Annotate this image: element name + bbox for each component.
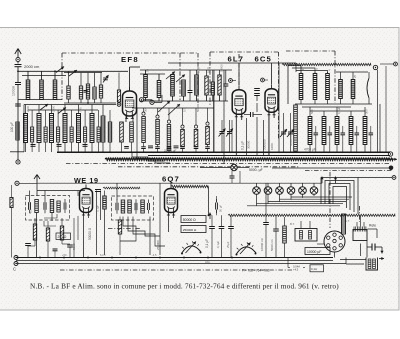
wire v 214 (213, 70, 215, 152)
trimmer TC3 (280, 113, 287, 152)
coil LI2 (50, 200, 54, 222)
shield EF8 left (62, 53, 198, 100)
svg-text:100 µF: 100 µF (10, 122, 14, 132)
heater zigzag (103, 187, 140, 189)
wire v 246 (246, 118, 248, 155)
socket pin 1 (327, 236, 330, 239)
label C (13, 267, 16, 272)
svg-text:2000: 2000 (51, 105, 55, 112)
bus zigzag (105, 158, 397, 161)
label b4 (216, 241, 220, 248)
wire v 257 (256, 103, 258, 155)
coil L13 left (16, 122, 19, 140)
ddv right2 (359, 206, 361, 222)
wire v 296 (295, 63, 297, 72)
label b6 (290, 222, 295, 226)
switch S2b (176, 75, 185, 83)
svg-text:10000 cm: 10000 cm (260, 237, 264, 251)
svg-text:0,1 µF: 0,1 µF (205, 239, 209, 248)
switch S1a (56, 67, 64, 73)
capacitor C40 (314, 126, 319, 152)
coil LB1 (103, 191, 106, 256)
trimmer TC1 (219, 120, 226, 152)
wire ant row (18, 71, 128, 75)
resistor RB3 (60, 218, 63, 244)
wire v 279 (278, 63, 280, 152)
trimmer Tsub (103, 75, 109, 83)
coil L21 (37, 105, 41, 153)
wire v240b (239, 171, 241, 183)
capacitor CI5 (135, 199, 137, 214)
wire subbank top (64, 72, 102, 74)
plug mains (367, 244, 384, 254)
label WE19 (74, 176, 99, 185)
wire EF8 top (140, 70, 232, 74)
bus B2 (16, 260, 333, 262)
wire w96 (96, 191, 98, 256)
coil LI4 (121, 200, 125, 213)
wire v5 pins (168, 214, 173, 233)
svg-text:0,1: 0,1 (158, 108, 162, 112)
wire v2 pins (236, 115, 241, 156)
label s11 (183, 108, 187, 112)
svg-text:15: 15 (315, 67, 319, 71)
trimmer TI2 (148, 200, 150, 214)
capacitor CW1 (95, 190, 101, 192)
zigzag 6q7 (171, 185, 208, 187)
svg-text:50000: 50000 (196, 104, 200, 112)
svg-text:Alim.: Alim. (205, 260, 211, 264)
coil L12 (211, 70, 214, 101)
coil L22 (50, 105, 54, 153)
osc stair (288, 66, 328, 105)
label 01uF a (241, 141, 245, 150)
svg-text:6C5: 6C5 (255, 55, 272, 64)
lamp mid (200, 164, 249, 170)
resistor R12 (57, 110, 60, 152)
wire v78 (77, 191, 79, 241)
wire v4 pins (83, 214, 88, 258)
label f762 (242, 268, 270, 272)
label 200 (56, 233, 71, 240)
label EF8 (121, 55, 139, 64)
coil L40 (308, 107, 312, 152)
wire osc bottom (295, 103, 372, 105)
wire v 380 (379, 104, 381, 152)
coil L1 (26, 71, 30, 99)
label b5 (226, 241, 230, 248)
svg-text:30000: 30000 (247, 140, 251, 149)
trimmer TI1 (64, 199, 66, 213)
label s13 (310, 109, 314, 114)
svg-text:200 Ω: 200 Ω (58, 235, 67, 239)
capacitor C60 (124, 147, 129, 149)
resistor R11 (44, 110, 47, 152)
coil L33 (326, 72, 330, 104)
lamp P4 (287, 183, 295, 200)
capacitor Cant 2000cm (15, 65, 22, 76)
tube V3 6C5 (265, 85, 278, 115)
svg-text:4700 µF: 4700 µF (304, 148, 316, 152)
wire row2a (24, 105, 116, 111)
label rete (369, 224, 376, 228)
dial cord (282, 63, 378, 69)
svg-text:B.T.: B.T. (290, 222, 295, 226)
resistor R50 (294, 105, 298, 151)
capacitor CB3 (53, 249, 58, 258)
coil L32 (313, 72, 317, 104)
capacitor C12 (83, 145, 88, 147)
wire x24 (23, 105, 25, 153)
capacitor C43 (355, 126, 360, 152)
choke LF (283, 217, 287, 258)
svg-text:EF8: EF8 (121, 55, 139, 64)
wire junction a (17, 70, 89, 104)
capacitor C8 (188, 70, 193, 101)
socket pin 3 (339, 236, 342, 239)
wire left col (17, 100, 19, 153)
wire pt right (368, 229, 378, 238)
wire IFT1 top (30, 191, 86, 200)
label 25000uF (164, 149, 177, 153)
capacitor C42 (341, 126, 346, 152)
label b2 (122, 207, 126, 212)
lamp P5 (299, 183, 307, 198)
capacitor CB2 (67, 245, 73, 258)
capacitor CM2 (228, 215, 234, 257)
svg-text:6,3 v: 6,3 v (100, 253, 106, 257)
label s8 (353, 74, 357, 78)
tube V2 6L7 (232, 86, 246, 117)
resistor R23 (180, 108, 185, 152)
label bus t3 (152, 253, 157, 257)
label 1000 (270, 143, 274, 150)
label s1 (146, 68, 150, 72)
label 6Q7 (162, 175, 180, 184)
wire loops exit (358, 176, 396, 180)
junction sub (117, 103, 121, 107)
svg-text:25µF: 25µF (226, 241, 230, 248)
capacitor Csub1 (84, 91, 88, 93)
wire lamp bus (247, 197, 352, 206)
bus 2 (148, 155, 390, 157)
coil L3 (53, 71, 57, 99)
terminal right 1 (388, 152, 392, 156)
svg-text:0,5: 0,5 (183, 108, 187, 112)
label s15 (365, 109, 369, 114)
terminal BL2 (14, 262, 18, 266)
svg-text:5000 cm: 5000 cm (270, 239, 274, 251)
coil LI6 (141, 200, 145, 213)
wire step ift2 (128, 217, 160, 237)
zigzag mid bus (208, 213, 395, 220)
wire v 160 (159, 183, 161, 255)
aerial K (19, 175, 40, 197)
capacitor C13 left (15, 104, 21, 106)
bus 1 (10, 151, 390, 153)
switch S3a (40, 104, 48, 110)
wire V1 pins (126, 116, 133, 122)
wire v 263 (263, 120, 265, 155)
label s16 (26, 105, 30, 112)
label s9 (144, 107, 148, 112)
svg-text:250000 Ω: 250000 Ω (183, 228, 197, 232)
wire lamp feed (37, 182, 322, 184)
capacitor CB1 (25, 218, 31, 258)
label s14 (337, 107, 341, 114)
trimmer TC2 (226, 120, 233, 152)
coil L7 (93, 73, 96, 104)
socket pin 4 (327, 244, 330, 247)
socket V6 (324, 231, 345, 252)
terminal right 2 (389, 166, 394, 171)
resistor R25 (205, 108, 210, 152)
svg-text:5000- µF: 5000- µF (249, 168, 263, 172)
capacitor C14 (148, 146, 153, 148)
svg-text:300: 300 (144, 107, 148, 112)
wire w100 (100, 191, 102, 221)
label s10 (158, 108, 162, 112)
wire ant bottom (18, 99, 62, 101)
wire row2 right a (302, 107, 365, 111)
label 2000cm (24, 64, 40, 69)
coil LI5 (128, 200, 132, 213)
svg-text:250000: 250000 (156, 240, 160, 250)
svg-text:50000 Ω: 50000 Ω (289, 135, 293, 146)
ddv right (329, 172, 331, 228)
coil L9 (171, 75, 175, 102)
svg-text:700: 700 (78, 107, 82, 112)
resistor R10 (218, 70, 221, 101)
svg-text:25: 25 (353, 74, 357, 78)
capacitor C9 (223, 70, 228, 101)
bus dash 1 (66, 163, 390, 165)
coil L2 (40, 71, 44, 99)
wire v150 (149, 217, 151, 256)
wire stepL (44, 214, 57, 226)
wire step3 (133, 217, 165, 247)
coil L44 (363, 107, 367, 152)
terminal K (15, 181, 19, 185)
antenna A (15, 49, 21, 64)
svg-text:C: C (13, 267, 16, 272)
switch S2a (166, 72, 175, 80)
wire v5 top (170, 183, 172, 185)
label 500000 (263, 139, 267, 150)
capacitor CI1 (29, 199, 31, 213)
box pot1 (181, 216, 206, 223)
label s17 (51, 105, 55, 112)
lamp P3 (276, 183, 284, 202)
bus B3 (16, 263, 346, 265)
label s5 (301, 67, 305, 71)
svg-text:50000 Ω: 50000 Ω (88, 227, 92, 240)
label bus t1 (62, 253, 67, 257)
label 30000 (247, 140, 251, 149)
grid junction g2 (150, 100, 154, 104)
resistor R14 (84, 110, 87, 152)
coil L20 (24, 105, 28, 153)
label bus t2 (100, 253, 106, 257)
coil L7 (144, 70, 148, 101)
socket pin 6 (339, 244, 342, 247)
capacitor C11 (57, 145, 62, 147)
wire bb links (288, 258, 364, 268)
terminal BL1 (14, 256, 18, 260)
resistor R22 (167, 108, 172, 152)
tube V4 WE19 (80, 185, 93, 216)
wire subbank bottom (64, 102, 116, 104)
arrow up lamps (320, 177, 337, 188)
coil L23 (63, 105, 67, 153)
pot arc2 (236, 242, 257, 255)
pot arc1 (181, 241, 202, 254)
label 4700uF (304, 148, 316, 152)
transformer OT (295, 221, 317, 241)
coil L42 (335, 107, 339, 152)
svg-text:Rete: Rete (369, 224, 376, 228)
wire v 2135 (213, 95, 215, 152)
label 5000cm (270, 239, 274, 251)
svg-text:2000 cm: 2000 cm (24, 64, 40, 69)
label 10000cm (260, 237, 264, 251)
resistor RB1 (33, 218, 36, 246)
label 50uF (219, 205, 223, 212)
label 01uFb (205, 239, 209, 248)
label 100cm (12, 86, 16, 96)
resistor RK (10, 185, 13, 258)
wire mid bottom (140, 100, 228, 102)
resistor R10 (31, 110, 34, 152)
svg-text:0,1µF: 0,1µF (216, 241, 220, 248)
svg-text:+4,5: +4,5 (293, 268, 299, 272)
wire v74 (73, 218, 75, 258)
resistor R60 (120, 122, 124, 152)
dash seg bf (108, 228, 141, 230)
lamp P1 (253, 183, 261, 205)
tube V1 EF8 (123, 87, 137, 119)
svg-text:50: 50 (146, 68, 150, 72)
svg-text:465: 465 (29, 209, 33, 214)
wire v 390t (378, 62, 398, 152)
svg-text:500: 500 (310, 109, 314, 114)
socket pin 7 (333, 239, 336, 242)
label 6C5 (255, 55, 272, 64)
resistor R9 (205, 70, 208, 101)
svg-text:6Q7: 6Q7 (162, 175, 180, 184)
grid cap V2 (229, 79, 236, 83)
wire v2085 (208, 187, 210, 217)
coil L24 (77, 105, 81, 153)
svg-text:-4,5: -4,5 (152, 253, 157, 257)
svg-text:N.B. - La BF e Alim. sono in c: N.B. - La BF e Alim. sono in comune per … (30, 282, 339, 291)
coil L4 (67, 73, 70, 104)
label s7 (328, 69, 332, 71)
label s12 (196, 104, 200, 112)
lamp P6 (310, 183, 318, 196)
wire IFT2 in (116, 183, 118, 200)
capacitor C10 (31, 145, 36, 147)
capacitor C6q (216, 196, 218, 215)
socket pin 5 (333, 247, 336, 250)
svg-text:50 µF: 50 µF (219, 205, 223, 212)
resistor R13 (70, 110, 73, 152)
capacitor C17 coupling (244, 112, 262, 117)
coil L6 (86, 73, 89, 104)
transformer PT (353, 216, 367, 241)
switch S4a (158, 101, 170, 112)
coil L60 (130, 122, 134, 152)
grid cap V3 (261, 78, 268, 82)
coil LI3 (57, 201, 60, 212)
socket pin 2 (333, 233, 336, 236)
grid junction g1 (139, 98, 143, 102)
wire loops right (321, 178, 358, 215)
svg-text:10000 µF: 10000 µF (307, 250, 321, 254)
wire socket down (327, 228, 335, 258)
tube V5 6Q7 (165, 185, 178, 216)
svg-text:10µF: 10µF (197, 66, 201, 73)
bus B1 (16, 257, 333, 259)
coil L26 (101, 105, 105, 153)
svg-text:0,1µF: 0,1µF (96, 205, 100, 212)
box pot2 (181, 226, 206, 233)
capacitor C1 (15, 76, 21, 100)
step wires (132, 153, 170, 163)
wire spk (340, 241, 367, 260)
svg-text:30: 30 (301, 67, 305, 71)
label s3 (207, 67, 211, 73)
resistor RB2 (46, 221, 49, 258)
label s2 (197, 66, 201, 73)
wire V2 top (238, 63, 240, 86)
svg-text:5000: 5000 (72, 243, 76, 250)
capacitor CM1 (219, 215, 225, 257)
terminal left mid (16, 152, 20, 164)
bus dash bottom (60, 269, 292, 271)
box bb2 (310, 265, 324, 272)
label b1 (29, 209, 33, 214)
coil L11 (195, 70, 199, 101)
coil L10 (182, 80, 186, 101)
capacitor CI2 (44, 199, 46, 213)
note NB (30, 282, 339, 291)
capacitor CM3 (263, 183, 269, 258)
capacitor C41 (328, 126, 333, 152)
svg-text:0,1A: 0,1A (311, 267, 317, 271)
coil L31 (299, 72, 303, 104)
label b7 (345, 219, 350, 223)
lamp P2 (264, 183, 272, 203)
resistor R21 (155, 108, 160, 152)
capacitor CV1 (230, 171, 235, 183)
bus dash 2 (305, 170, 392, 172)
coil L5 (79, 73, 82, 104)
label bus t4 (205, 260, 211, 264)
switch S4b (168, 104, 180, 115)
svg-text:100cm: 100cm (12, 86, 16, 96)
svg-text:1000: 1000 (270, 143, 274, 150)
label bb1 (293, 264, 300, 271)
resistor R20 (141, 108, 146, 152)
speaker SP (366, 257, 384, 270)
resistor R15 (97, 110, 100, 152)
wire v3 pins (269, 112, 274, 155)
coil L25 (90, 105, 94, 153)
tick marks bus (40, 256, 232, 259)
box 5000uF (249, 168, 390, 172)
wire v 232 (231, 120, 233, 152)
